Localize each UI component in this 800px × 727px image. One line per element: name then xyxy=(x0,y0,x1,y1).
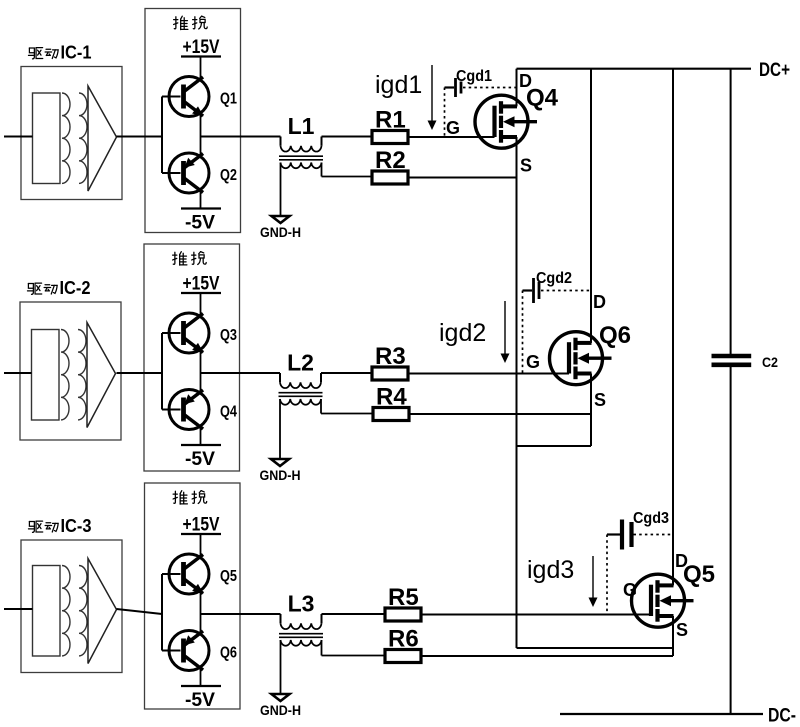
inductor L1 (common-mode choke) xyxy=(279,137,323,169)
-5V supply xyxy=(181,209,221,234)
svg-text:GND-H: GND-H xyxy=(260,702,301,718)
svg-text:+15V: +15V xyxy=(183,274,220,295)
svg-text:R6: R6 xyxy=(388,626,419,653)
driver IC-3 isolation winding left xyxy=(62,566,70,656)
svg-text:L3: L3 xyxy=(288,591,315,617)
wire: input to driver IC-2 xyxy=(4,372,32,374)
wire: Q5 drain to DC+ rail xyxy=(672,69,674,586)
driver IC-2 isolation winding right xyxy=(78,330,86,420)
dashed lead: Cgd3 to drain xyxy=(634,534,674,536)
dashed lead: Cgd1 to gate xyxy=(444,88,446,138)
svg-text:Q3: Q3 xyxy=(220,327,237,344)
wire: input to driver IC-3 xyxy=(4,608,33,610)
dashed lead: Cgd2 to drain xyxy=(541,290,591,292)
svg-text:L2: L2 xyxy=(287,350,314,376)
wire: lower winding to GND-H xyxy=(279,399,281,459)
inductor L2 (common-mode choke) xyxy=(279,373,323,405)
capacitor Cgd2 xyxy=(523,270,573,303)
svg-text:igd1: igd1 xyxy=(375,71,422,99)
resistor R3 xyxy=(372,343,408,380)
svg-text:S: S xyxy=(520,156,532,176)
wire: lower winding to return resistor xyxy=(321,399,372,414)
wire: Q5 source down xyxy=(672,616,674,656)
wire: base bus xyxy=(162,574,181,651)
dashed lead: Cgd3 to gate xyxy=(606,535,608,615)
svg-text:Q2: Q2 xyxy=(220,167,237,184)
svg-text:igd2: igd2 xyxy=(439,319,486,347)
wire: lower collector to -5V xyxy=(200,190,202,209)
wire: lower winding to GND-H xyxy=(280,163,282,217)
driver IC-1 isolation winding left xyxy=(62,93,70,183)
wire: L2 to gate resistor xyxy=(321,372,372,374)
svg-text:R2: R2 xyxy=(375,147,406,174)
wire: +15V to collector of upper transistor xyxy=(200,57,202,80)
capacitor C2 xyxy=(712,69,779,714)
MOSFET Q5 xyxy=(632,574,694,627)
svg-text:R3: R3 xyxy=(375,343,406,370)
wire: L3 to gate resistor xyxy=(322,613,386,615)
transistor Q6 (PNP, push-pull lower) xyxy=(169,631,237,671)
svg-text:L1: L1 xyxy=(288,113,315,139)
wire: Q6 source down xyxy=(590,374,592,447)
resistor R2 xyxy=(372,147,408,184)
push-pull stage 3 box xyxy=(145,483,241,709)
svg-text:R1: R1 xyxy=(375,107,406,134)
svg-text:DC-: DC- xyxy=(768,706,796,727)
svg-text:IC-3: IC-3 xyxy=(61,516,92,536)
wire: R6 to source of Q5 xyxy=(421,655,673,657)
svg-text:Cgd1: Cgd1 xyxy=(456,68,492,85)
svg-text:GND-H: GND-H xyxy=(260,467,301,483)
svg-text:C2: C2 xyxy=(762,354,778,370)
DC- rail xyxy=(560,706,796,727)
+15V supply xyxy=(181,37,221,58)
svg-text:GND-H: GND-H xyxy=(260,224,301,240)
wire: lower winding to return resistor xyxy=(322,163,373,177)
-5V supply xyxy=(181,445,221,470)
svg-text:IC-2: IC-2 xyxy=(60,278,91,298)
wire: Q4 source / common source bus xyxy=(516,137,518,648)
svg-text:D: D xyxy=(593,292,606,312)
wire: R3 to gate of Q6 xyxy=(409,373,569,375)
+15V supply xyxy=(181,274,221,295)
resistor R5 xyxy=(385,584,421,621)
wire: input to driver IC-1 xyxy=(4,136,33,138)
label 驱动IC-2 xyxy=(27,278,90,298)
wire: source bus link section 2 xyxy=(517,445,592,447)
wire: R4 to source of Q6 xyxy=(409,413,591,415)
svg-text:-5V: -5V xyxy=(185,213,215,234)
driver IC-3 block box xyxy=(21,540,122,673)
svg-text:Q5: Q5 xyxy=(220,568,237,585)
svg-text:+15V: +15V xyxy=(183,37,220,58)
label 推挽 xyxy=(174,16,208,29)
MOSFET Q6 xyxy=(550,332,612,385)
svg-text:-5V: -5V xyxy=(185,690,215,711)
wire: R5 to gate of Q5 xyxy=(421,614,651,616)
-5V supply xyxy=(181,686,221,711)
wire: driver IC-2 output to bases xyxy=(117,372,163,374)
wire: emitter junction xyxy=(200,591,202,634)
push-pull stage 2 box xyxy=(144,244,240,471)
driver IC-1 amplifier triangle xyxy=(88,86,117,191)
svg-text:G: G xyxy=(526,352,540,372)
MOSFET Q4 xyxy=(475,95,537,148)
driver IC-2 isolation winding left xyxy=(61,330,69,420)
wire: push-pull output to L3 xyxy=(201,613,281,615)
transistor Q4 (PNP, push-pull lower) xyxy=(169,390,237,430)
transistor Q2 (PNP, push-pull lower) xyxy=(169,153,237,193)
wire: lower collector to -5V xyxy=(200,427,202,446)
resistor R4 xyxy=(373,384,409,421)
label 推挽 xyxy=(173,252,207,265)
svg-text:S: S xyxy=(594,390,606,410)
wire: R2 to source of Q4 xyxy=(408,177,517,179)
svg-text:D: D xyxy=(675,551,688,571)
wire: Q6 drain to DC+ rail xyxy=(590,69,592,343)
wire: +15V to collector of upper transistor xyxy=(200,293,202,316)
svg-text:R5: R5 xyxy=(388,584,419,611)
svg-text:+15V: +15V xyxy=(183,515,220,536)
label 推挽 xyxy=(173,491,207,504)
capacitor Cgd3 xyxy=(607,510,669,550)
current arrow igd1 xyxy=(428,65,437,130)
driver IC-2 block box xyxy=(20,302,121,440)
driver IC-1 block box xyxy=(21,67,122,200)
current arrow igd3 xyxy=(589,556,598,607)
transistor Q5 (NPN, push-pull upper) xyxy=(169,554,237,594)
driver IC-2 amplifier triangle xyxy=(87,323,116,428)
wire: emitter junction xyxy=(200,114,202,157)
transistor Q3 (NPN, push-pull upper) xyxy=(169,313,237,353)
svg-text:S: S xyxy=(676,620,688,640)
wire: base bus xyxy=(162,333,181,410)
svg-text:G: G xyxy=(446,118,460,138)
ground GND-H xyxy=(260,694,301,718)
wire: driver IC-1 output to bases xyxy=(117,136,163,138)
wire: push-pull output to L2 xyxy=(201,372,281,374)
wire: lower collector to -5V xyxy=(200,668,202,687)
svg-text:Q6: Q6 xyxy=(599,322,631,349)
label 驱动IC-1 xyxy=(28,43,91,63)
wire: lower winding to GND-H xyxy=(280,640,282,694)
svg-text:Q6: Q6 xyxy=(220,645,237,662)
resistor R1 xyxy=(372,107,408,144)
resistor R6 xyxy=(385,626,421,663)
svg-text:-5V: -5V xyxy=(185,449,215,470)
transistor Q1 (NPN, push-pull upper) xyxy=(169,77,237,117)
inductor L3 (common-mode choke) xyxy=(279,614,323,646)
driver IC-1 input stage rectangle xyxy=(33,93,61,184)
dashed lead: Cgd2 to gate xyxy=(522,291,524,374)
wire: base bus xyxy=(162,97,181,174)
driver IC-2 input stage rectangle xyxy=(32,330,60,421)
label 驱动IC-3 xyxy=(28,516,91,536)
wire: push-pull output to L1 xyxy=(201,136,281,138)
svg-text:D: D xyxy=(519,71,532,91)
svg-text:Q4: Q4 xyxy=(220,404,237,421)
svg-text:R4: R4 xyxy=(376,384,407,411)
wire: emitter junction xyxy=(200,350,202,393)
svg-text:Q1: Q1 xyxy=(220,91,237,108)
svg-text:IC-1: IC-1 xyxy=(61,43,92,63)
svg-text:Cgd2: Cgd2 xyxy=(536,270,572,287)
ground GND-H xyxy=(260,216,301,240)
wire: lower winding to return resistor xyxy=(322,640,386,656)
driver IC-1 isolation winding right xyxy=(79,93,87,183)
svg-text:G: G xyxy=(623,580,637,600)
ground GND-H xyxy=(260,459,301,483)
wire: R1 to gate of Q4 xyxy=(408,136,495,138)
wire: Q4 drain to DC+ rail xyxy=(516,69,518,107)
driver IC-3 input stage rectangle xyxy=(33,566,61,657)
DC+ rail xyxy=(517,60,791,81)
wire: L1 to gate resistor xyxy=(322,136,373,138)
driver IC-3 isolation winding right xyxy=(79,566,87,656)
wire: driver IC-3 output to bases xyxy=(117,609,163,614)
driver IC-3 amplifier triangle xyxy=(88,559,117,664)
+15V supply xyxy=(181,515,221,536)
current arrow igd2 xyxy=(501,301,510,363)
svg-text:Cgd3: Cgd3 xyxy=(633,510,669,527)
dashed lead: Cgd1 to drain xyxy=(463,87,517,89)
svg-text:DC+: DC+ xyxy=(759,60,790,81)
capacitor Cgd1 xyxy=(445,68,493,97)
wire: source bus link section 3 xyxy=(517,647,674,649)
svg-text:igd3: igd3 xyxy=(527,556,574,584)
wire: +15V to collector of upper transistor xyxy=(200,534,202,557)
push-pull stage 1 box xyxy=(145,9,241,233)
